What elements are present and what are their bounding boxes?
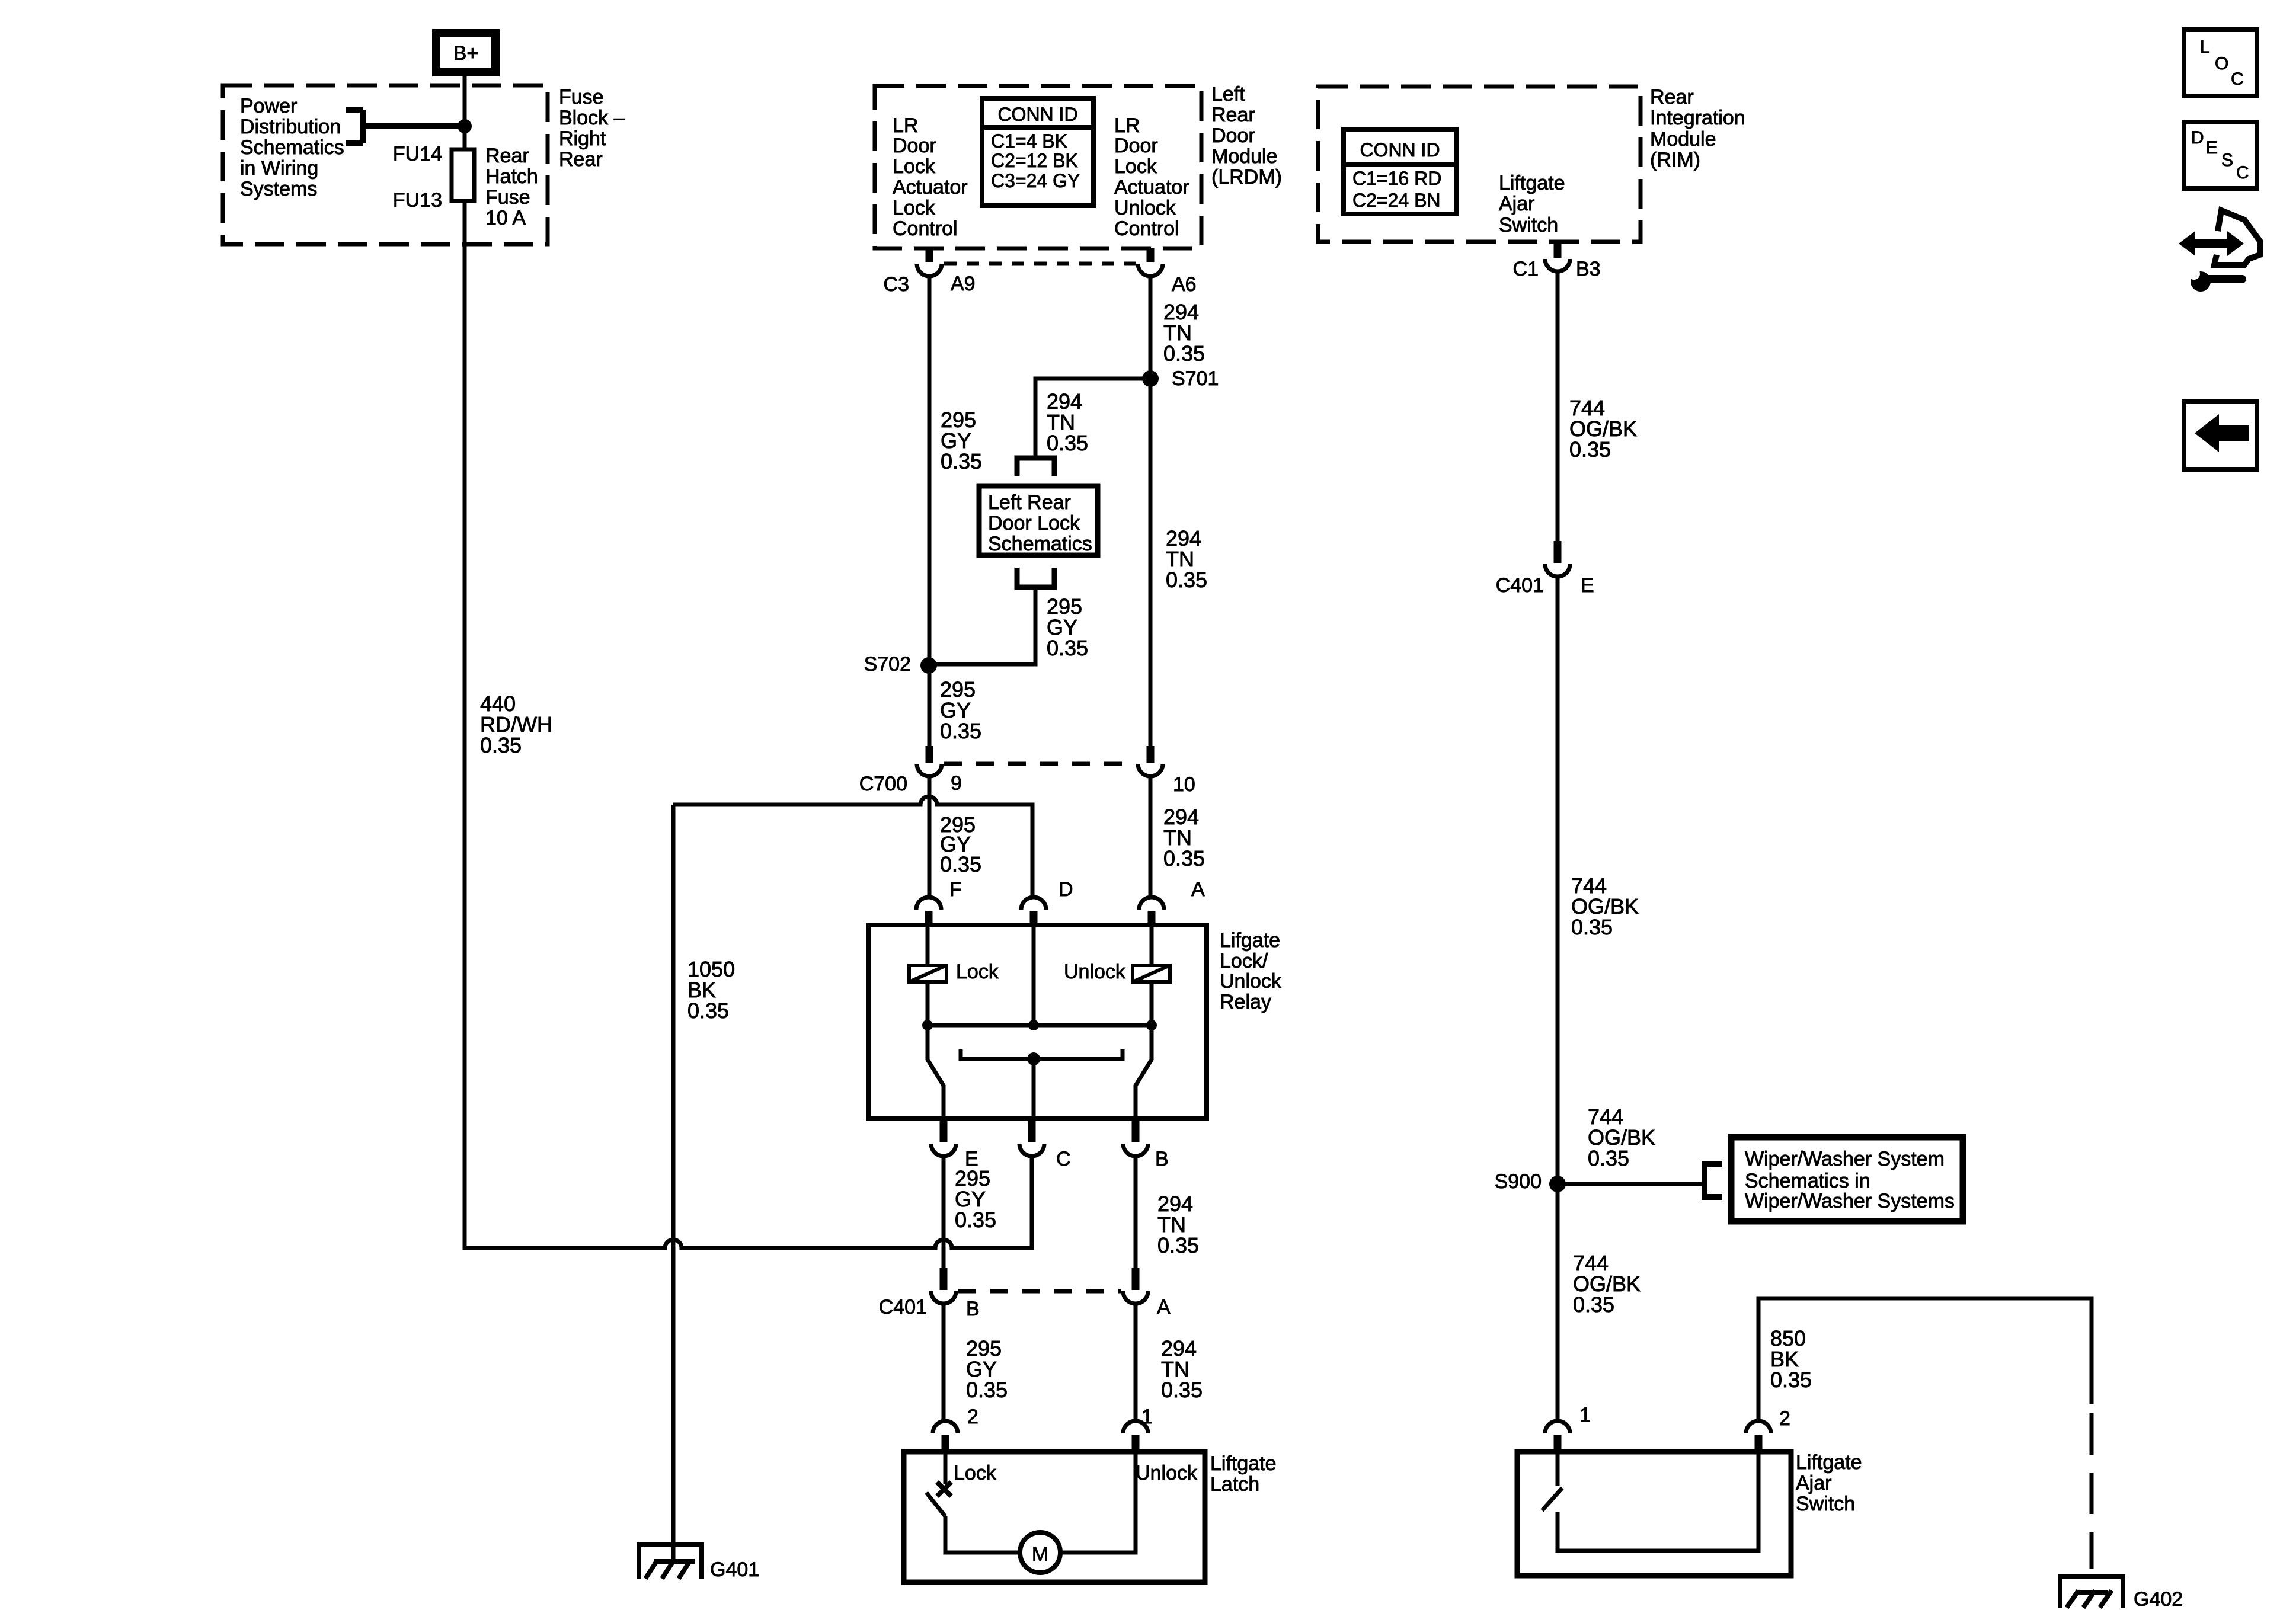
svg-text:A9: A9 [951, 273, 976, 295]
svg-text:Ajar: Ajar [1796, 1472, 1831, 1494]
svg-text:S702: S702 [864, 653, 911, 676]
svg-text:Lock: Lock [893, 155, 936, 178]
svg-text:C700: C700 [859, 773, 907, 795]
svg-text:Rear: Rear [485, 145, 529, 167]
svg-text:in Wiring: in Wiring [240, 157, 318, 180]
svg-text:Wiper/Washer System: Wiper/Washer System [1745, 1148, 1945, 1170]
svg-text:0.35: 0.35 [1588, 1146, 1629, 1170]
svg-text:C401: C401 [1496, 574, 1544, 597]
svg-text:Hatch: Hatch [485, 165, 538, 188]
svg-text:CONN ID: CONN ID [997, 104, 1077, 125]
svg-text:2: 2 [967, 1406, 978, 1428]
svg-text:Wiper/Washer Systems: Wiper/Washer Systems [1745, 1190, 1955, 1212]
svg-text:Unlock: Unlock [1136, 1462, 1198, 1484]
svg-text:(LRDM): (LRDM) [1211, 166, 1282, 188]
svg-text:Unlock: Unlock [1064, 961, 1126, 983]
svg-text:Lock/: Lock/ [1220, 950, 1268, 972]
svg-text:Power: Power [240, 95, 297, 117]
svg-text:Door Lock: Door Lock [988, 512, 1080, 534]
svg-text:B+: B+ [453, 42, 479, 65]
svg-text:G401: G401 [710, 1558, 759, 1581]
svg-text:E: E [2206, 138, 2218, 158]
svg-text:Door: Door [893, 135, 936, 157]
svg-text:0.35: 0.35 [687, 998, 729, 1023]
svg-text:Latch: Latch [1210, 1473, 1259, 1496]
svg-text:Module: Module [1211, 145, 1278, 168]
svg-text:Ajar: Ajar [1499, 193, 1534, 215]
svg-text:S900: S900 [1495, 1170, 1542, 1193]
svg-text:Lock: Lock [956, 961, 999, 983]
svg-text:A: A [1157, 1296, 1171, 1318]
svg-text:(RIM): (RIM) [1650, 149, 1700, 171]
svg-text:Lock: Lock [954, 1462, 997, 1484]
svg-text:Rear: Rear [559, 148, 603, 171]
svg-text:0.35: 0.35 [940, 852, 981, 876]
svg-text:LR: LR [1114, 114, 1140, 137]
svg-text:Distribution: Distribution [240, 116, 341, 138]
svg-text:Door: Door [1114, 135, 1158, 157]
svg-text:Schematics: Schematics [988, 533, 1092, 555]
svg-text:0.35: 0.35 [966, 1378, 1008, 1402]
svg-text:0.35: 0.35 [1163, 846, 1205, 870]
svg-text:Control: Control [1114, 217, 1179, 240]
svg-text:Actuator: Actuator [1114, 176, 1189, 199]
svg-text:0.35: 0.35 [1161, 1378, 1203, 1402]
svg-text:Unlock: Unlock [1114, 197, 1176, 219]
svg-text:0.35: 0.35 [955, 1208, 996, 1232]
svg-text:0.35: 0.35 [1573, 1292, 1614, 1317]
svg-text:Door: Door [1211, 124, 1255, 147]
svg-text:C1=4 BK: C1=4 BK [991, 130, 1067, 152]
svg-text:M: M [1032, 1543, 1048, 1566]
svg-text:Schematics: Schematics [240, 136, 344, 159]
svg-text:0.35: 0.35 [1163, 341, 1205, 366]
svg-text:FU14: FU14 [393, 143, 442, 165]
svg-text:Liftgate: Liftgate [1796, 1451, 1862, 1474]
svg-text:E: E [1581, 574, 1594, 597]
svg-text:S: S [2221, 151, 2233, 170]
svg-text:B: B [966, 1298, 980, 1320]
svg-text:0.35: 0.35 [1166, 568, 1207, 592]
svg-text:A: A [1191, 878, 1205, 901]
svg-text:0.35: 0.35 [1047, 431, 1088, 455]
svg-text:0.35: 0.35 [1770, 1368, 1812, 1392]
svg-text:Integration: Integration [1650, 107, 1745, 129]
svg-text:C3: C3 [884, 273, 909, 296]
svg-text:Right: Right [559, 127, 606, 150]
svg-text:B3: B3 [1576, 258, 1601, 280]
svg-text:Actuator: Actuator [893, 176, 968, 199]
svg-text:C: C [1056, 1148, 1071, 1170]
svg-text:Relay: Relay [1220, 991, 1271, 1013]
svg-text:C401: C401 [879, 1296, 927, 1318]
svg-text:1: 1 [1579, 1404, 1591, 1426]
svg-text:A6: A6 [1172, 273, 1197, 296]
svg-text:C1=16 RD: C1=16 RD [1352, 168, 1441, 189]
svg-text:Fuse: Fuse [559, 86, 604, 108]
svg-text:L: L [2200, 37, 2210, 57]
svg-text:O: O [2215, 54, 2228, 73]
svg-text:S701: S701 [1172, 367, 1219, 390]
svg-text:Left Rear: Left Rear [988, 491, 1071, 514]
svg-text:Switch: Switch [1499, 214, 1558, 236]
svg-text:Liftgate: Liftgate [1210, 1452, 1277, 1475]
svg-text:Liftgate: Liftgate [1499, 172, 1565, 194]
svg-text:Lock: Lock [893, 197, 936, 219]
svg-text:0.35: 0.35 [1047, 636, 1088, 660]
svg-text:Module: Module [1650, 128, 1716, 151]
svg-text:D: D [1059, 878, 1073, 901]
svg-text:0.35: 0.35 [480, 733, 522, 757]
svg-text:0.35: 0.35 [1157, 1233, 1199, 1257]
svg-text:Switch: Switch [1796, 1493, 1855, 1515]
svg-text:Block –: Block – [559, 107, 625, 129]
svg-text:Lifgate: Lifgate [1220, 929, 1280, 952]
svg-text:C1: C1 [1513, 258, 1539, 280]
svg-text:D: D [2191, 128, 2204, 148]
svg-text:10: 10 [1173, 773, 1195, 796]
svg-text:0.35: 0.35 [940, 719, 981, 743]
svg-text:Lock: Lock [1114, 155, 1157, 178]
svg-text:0.35: 0.35 [1569, 437, 1611, 462]
svg-text:Rear: Rear [1211, 104, 1255, 126]
svg-text:Fuse: Fuse [485, 186, 530, 209]
svg-text:Left: Left [1211, 83, 1245, 105]
svg-text:0.35: 0.35 [941, 449, 982, 473]
svg-text:F: F [949, 878, 962, 901]
svg-text:9: 9 [951, 772, 962, 795]
svg-text:0.35: 0.35 [1571, 915, 1613, 939]
svg-text:Systems: Systems [240, 178, 317, 200]
svg-text:C: C [2236, 163, 2249, 183]
svg-text:10 A: 10 A [485, 207, 526, 229]
svg-text:FU13: FU13 [393, 189, 442, 212]
svg-text:C2=24 BN: C2=24 BN [1352, 190, 1441, 211]
svg-text:2: 2 [1779, 1407, 1790, 1430]
svg-text:Control: Control [893, 217, 958, 240]
svg-text:Unlock: Unlock [1220, 970, 1282, 993]
svg-text:CONN ID: CONN ID [1360, 139, 1440, 161]
svg-text:C: C [2231, 69, 2244, 89]
svg-text:C2=12 BK: C2=12 BK [991, 150, 1078, 171]
svg-text:G402: G402 [2134, 1588, 2183, 1610]
svg-text:LR: LR [893, 114, 918, 137]
svg-text:C3=24 GY: C3=24 GY [991, 170, 1080, 191]
svg-text:B: B [1155, 1148, 1169, 1170]
svg-text:Rear: Rear [1650, 86, 1694, 108]
svg-text:Schematics in: Schematics in [1745, 1170, 1870, 1192]
